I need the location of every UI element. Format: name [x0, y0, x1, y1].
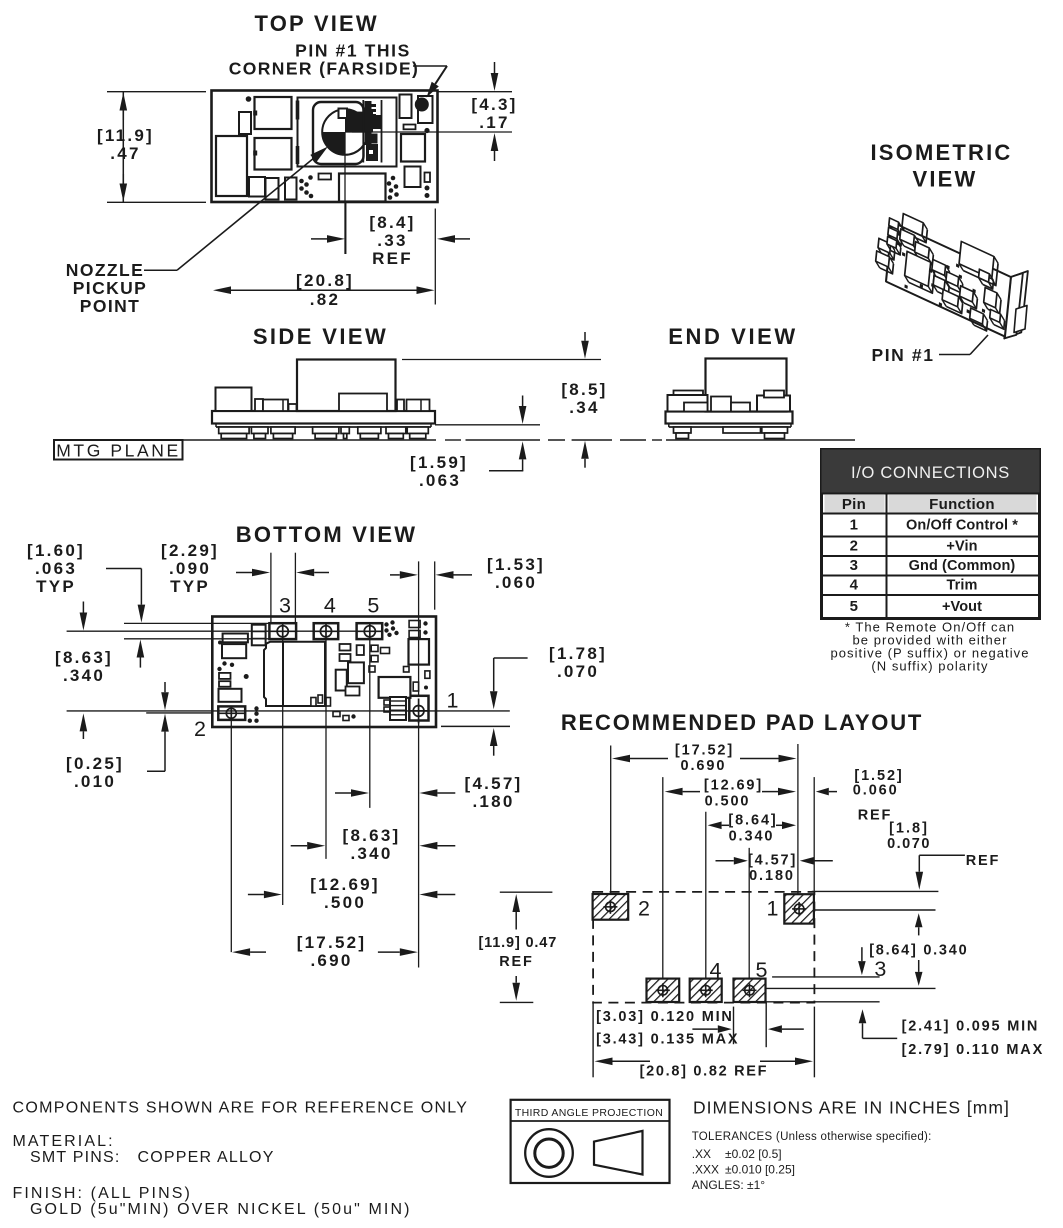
svg-text:±0.02 [0.5]: ±0.02 [0.5] [725, 1147, 782, 1161]
pad 5 [734, 979, 766, 1002]
svg-text:0.070: 0.070 [887, 836, 931, 852]
pad 3 [647, 979, 680, 1002]
pad 4 [690, 979, 722, 1002]
svg-text:(N suffix) polarity: (N suffix) polarity [871, 659, 988, 674]
svg-text:[11.9]: [11.9] [97, 126, 154, 145]
dim 0.25/.010 [164, 682, 166, 692]
svg-text:DIMENSIONS ARE IN INCHES [mm]: DIMENSIONS ARE IN INCHES [mm] [693, 1098, 1010, 1118]
svg-text:POINT: POINT [80, 296, 140, 316]
svg-text:±0.010 [0.25]: ±0.010 [0.25] [725, 1163, 795, 1177]
dim 3.03/3.43 MIN MAX [592, 1003, 594, 1078]
svg-text:MTG PLANE: MTG PLANE [56, 441, 181, 461]
svg-text:.090: .090 [169, 559, 211, 578]
svg-text:FINISH: (ALL PINS): FINISH: (ALL PINS) [13, 1185, 192, 1202]
svg-text:2: 2 [194, 717, 206, 741]
svg-text:.340: .340 [63, 666, 105, 685]
svg-text:[8.5]: [8.5] [561, 380, 607, 399]
dim 20.8 REF pad layout [813, 1007, 815, 1078]
top view module outline [212, 91, 438, 203]
svg-text:.47: .47 [110, 144, 140, 163]
svg-text:5: 5 [756, 958, 768, 982]
svg-text:.060: .060 [495, 573, 537, 592]
svg-text:5: 5 [367, 594, 379, 618]
bottom view components [252, 625, 266, 646]
bottom view vertical extension lines below [230, 720, 232, 952]
MTG plane line [183, 439, 437, 441]
pad 1 [784, 894, 814, 923]
dim 4.57/.180 bottom view [335, 792, 351, 794]
dim 1.52/0.060 REF [829, 791, 837, 793]
svg-text:[17.52]: [17.52] [297, 933, 367, 952]
svg-text:RECOMMENDED PAD LAYOUT: RECOMMENDED PAD LAYOUT [561, 710, 923, 735]
svg-text:[20.8]: [20.8] [296, 271, 354, 290]
svg-text:TYP: TYP [170, 577, 210, 596]
svg-text:[17.52]: [17.52] [675, 743, 734, 759]
svg-text:[2.41] 0.095 MIN: [2.41] 0.095 MIN [902, 1019, 1040, 1035]
isometric module drawing [874, 204, 1028, 340]
svg-text:REF: REF [966, 853, 1001, 869]
end view pins [674, 427, 692, 433]
svg-text:2: 2 [850, 538, 859, 555]
center lines from nozzle point [344, 132, 346, 254]
svg-text:[2.29]: [2.29] [161, 541, 219, 560]
dim 8.4/.33 REF [434, 209, 436, 305]
pad layout module dashed outline [593, 892, 814, 1003]
svg-text:GOLD (5u"MIN) OVER NICKEL (50u: GOLD (5u"MIN) OVER NICKEL (50u" MIN) [30, 1201, 412, 1218]
svg-text:.340: .340 [350, 844, 392, 863]
pin 1 dot [415, 98, 429, 112]
svg-text:[1.60]: [1.60] [27, 541, 85, 560]
side view components [216, 388, 252, 412]
svg-text:Pin: Pin [842, 496, 866, 513]
dim 11.9 REF pad layout [500, 891, 553, 893]
svg-text:MATERIAL:: MATERIAL: [13, 1133, 115, 1150]
svg-text:PICKUP: PICKUP [73, 278, 148, 298]
svg-text:5: 5 [850, 598, 859, 615]
svg-text:1: 1 [447, 689, 459, 713]
svg-text:VIEW: VIEW [912, 167, 977, 192]
svg-text:[20.8] 0.82 REF: [20.8] 0.82 REF [640, 1064, 769, 1080]
svg-text:0.500: 0.500 [705, 794, 751, 810]
svg-text:1: 1 [767, 897, 779, 921]
dim 1.53/.060 [390, 574, 400, 576]
svg-text:[1.8]: [1.8] [889, 821, 929, 837]
svg-text:[4.3]: [4.3] [471, 95, 517, 114]
dim 1.78/.070 leader [494, 657, 528, 659]
bottom view extension lines [124, 622, 269, 624]
svg-text:TOLERANCES (Unless otherwise s: TOLERANCES (Unless otherwise specified): [692, 1131, 932, 1143]
dim 8.5/.34 [402, 359, 601, 361]
svg-text:[11.9] 0.47: [11.9] 0.47 [478, 935, 557, 951]
svg-text:[3.43] 0.135 MAX: [3.43] 0.135 MAX [596, 1032, 739, 1048]
svg-text:ISOMETRIC: ISOMETRIC [870, 140, 1012, 165]
svg-text:2: 2 [638, 897, 650, 921]
svg-text:[1.59]: [1.59] [410, 453, 468, 472]
svg-text:3: 3 [279, 594, 291, 618]
svg-text:NOZZLE: NOZZLE [66, 260, 144, 280]
svg-text:.010: .010 [74, 772, 116, 791]
third angle projection symbol [511, 1100, 670, 1183]
svg-text:.17: .17 [479, 113, 509, 132]
svg-text:BOTTOM VIEW: BOTTOM VIEW [236, 522, 417, 547]
svg-text:REF: REF [372, 249, 413, 268]
svg-text:4: 4 [710, 959, 722, 983]
svg-text:CORNER (FARSIDE): CORNER (FARSIDE) [229, 58, 420, 78]
dim 8.63/.340 left [82, 602, 84, 613]
svg-text:.XXX: .XXX [692, 1163, 719, 1177]
svg-text:[1.78]: [1.78] [549, 644, 607, 663]
svg-text:TYP: TYP [36, 577, 76, 596]
dim 4.3/.17 [438, 91, 513, 93]
dim 8.64/0.340 right [918, 927, 920, 935]
pad layout vertical extension lines [610, 746, 612, 895]
bottom view module outline [212, 617, 436, 728]
dim 17.52/0.690 pad [630, 758, 668, 760]
svg-text:[4.57]: [4.57] [748, 853, 797, 869]
top view components [246, 96, 252, 102]
svg-text:+Vin: +Vin [946, 539, 977, 555]
svg-text:0.690: 0.690 [681, 758, 727, 774]
nozzle pickup circle [322, 109, 368, 155]
svg-text:+Vout: +Vout [942, 599, 982, 615]
bottom view pin boxes [269, 623, 296, 639]
svg-text:Trim: Trim [946, 578, 977, 594]
svg-text:.33: .33 [377, 231, 407, 250]
svg-text:.180: .180 [472, 792, 514, 811]
svg-text:.500: .500 [324, 893, 366, 912]
svg-text:.82: .82 [310, 290, 340, 309]
svg-text:SIDE VIEW: SIDE VIEW [253, 324, 388, 349]
dim 11.9/.47 left of top view [107, 91, 206, 93]
svg-text:PIN #1: PIN #1 [871, 345, 934, 365]
svg-text:[3.03] 0.120 MIN: [3.03] 0.120 MIN [596, 1009, 734, 1025]
svg-text:[4.57]: [4.57] [465, 774, 523, 793]
svg-text:I/O CONNECTIONS: I/O CONNECTIONS [851, 464, 1010, 482]
svg-text:4: 4 [324, 594, 336, 618]
svg-text:SMT PINS: COPPER ALLOY: SMT PINS: COPPER ALLOY [30, 1149, 275, 1166]
dim 8.63/.340 bottom view [291, 845, 308, 847]
svg-text:TOP VIEW: TOP VIEW [255, 11, 379, 36]
svg-text:.690: .690 [310, 951, 352, 970]
black IC blobs right of circle [352, 112, 373, 133]
svg-text:Function: Function [929, 496, 995, 513]
svg-text:0.060: 0.060 [853, 783, 899, 799]
I/O connections table [822, 450, 1040, 619]
dim 20.8/.82 [231, 289, 290, 291]
dim 12.69/.500 [248, 894, 264, 896]
pad 2 [593, 894, 629, 920]
svg-text:PIN #1 THIS: PIN #1 THIS [295, 40, 411, 60]
svg-text:Gnd (Common): Gnd (Common) [909, 558, 1016, 574]
svg-text:0.180: 0.180 [749, 868, 795, 884]
svg-text:.XX: .XX [692, 1147, 711, 1161]
dim 8.64/0.340 pad [722, 824, 729, 826]
svg-text:1: 1 [850, 517, 859, 534]
svg-text:.063: .063 [35, 559, 77, 578]
dim 4.57/0.180 pad [716, 860, 734, 862]
end view board [666, 412, 793, 424]
dim 12.69/0.500 pad [683, 791, 700, 793]
svg-text:REF: REF [499, 954, 534, 970]
dim 17.52/.690 [250, 951, 266, 953]
side view board [212, 411, 435, 424]
svg-text:THIRD ANGLE PROJECTION: THIRD ANGLE PROJECTION [515, 1107, 663, 1119]
svg-text:[1.53]: [1.53] [487, 555, 545, 574]
svg-text:0.340: 0.340 [729, 829, 775, 845]
svg-text:[8.4]: [8.4] [369, 213, 415, 232]
dim 1.59/.063 [435, 424, 540, 426]
svg-text:.063: .063 [419, 471, 461, 490]
svg-text:[8.63]: [8.63] [55, 648, 113, 667]
svg-text:[12.69]: [12.69] [310, 875, 380, 894]
pad 3 label arrow [861, 947, 863, 961]
svg-text:[8.64] 0.340: [8.64] 0.340 [869, 943, 968, 959]
end view components [706, 359, 787, 412]
svg-text:ANGLES: ±1°: ANGLES: ±1° [692, 1178, 766, 1192]
side view pins [219, 427, 249, 434]
svg-text:[2.79] 0.110 MAX: [2.79] 0.110 MAX [902, 1042, 1044, 1058]
svg-text:3: 3 [850, 557, 859, 574]
svg-text:.34: .34 [569, 398, 599, 417]
svg-text:[8.63]: [8.63] [343, 826, 401, 845]
dim 2.41/2.79 MIN MAX [862, 1023, 864, 1033]
pad1 extension lines right [812, 890, 939, 892]
svg-text:.070: .070 [557, 662, 599, 681]
svg-text:END VIEW: END VIEW [668, 324, 798, 349]
svg-text:4: 4 [850, 577, 859, 594]
svg-text:[0.25]: [0.25] [66, 754, 124, 773]
svg-text:[8.64]: [8.64] [728, 813, 777, 829]
svg-text:[12.69]: [12.69] [704, 778, 763, 794]
lower pad extension lines [766, 987, 936, 989]
svg-text:On/Off Control *: On/Off Control * [906, 518, 1018, 534]
pin1 leader arrow [413, 65, 447, 67]
svg-text:REF: REF [858, 808, 893, 824]
MTG PLANE label [54, 440, 183, 460]
svg-text:COMPONENTS SHOWN ARE FOR REFER: COMPONENTS SHOWN ARE FOR REFERENCE ONLY [13, 1100, 469, 1117]
